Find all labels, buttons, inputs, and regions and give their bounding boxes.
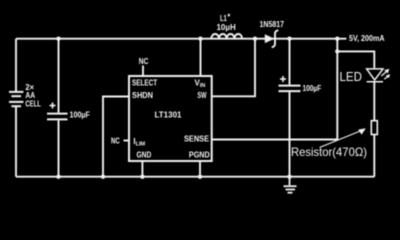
svg-text:*: *	[227, 13, 231, 22]
C2 plus sign	[280, 76, 286, 82]
ground symbol	[284, 177, 297, 193]
wire resistor to bottom rail	[373, 135, 375, 177]
node: bottom rail / ground junction	[287, 175, 291, 179]
svg-text:L1: L1	[220, 14, 227, 23]
svg-text:SENSE: SENSE	[184, 135, 210, 144]
wire LED to resistor	[373, 82, 375, 121]
wire VIN branch	[200, 39, 202, 76]
wire LED branch	[337, 51, 374, 68]
wire NC stub left	[124, 140, 130, 142]
resistor R1 box	[371, 121, 377, 135]
wire SHDN branch	[103, 97, 129, 177]
node: bottom rail / PGND junction	[198, 175, 202, 179]
svg-text:CELL: CELL	[25, 100, 41, 109]
node: bottom rail / SHDN junction	[101, 175, 105, 179]
node: top rail / C1 junction	[56, 37, 60, 41]
wire C1 branch lower	[58, 120, 60, 176]
svg-text:Resistor(470Ω): Resistor(470Ω)	[291, 145, 367, 159]
node: top rail / C2 junction	[287, 37, 291, 41]
svg-text:LT1301: LT1301	[155, 111, 183, 120]
inductor L1	[211, 34, 242, 39]
LED D2 symbol	[367, 69, 383, 82]
svg-text:1N5817: 1N5817	[260, 20, 285, 29]
svg-text:100µF: 100µF	[70, 111, 91, 120]
node: top rail / VIN junction	[198, 37, 202, 41]
C1 plus sign	[50, 103, 56, 109]
node: bottom rail / C1 junction	[56, 175, 60, 179]
wire left vertical (battery branch top)	[15, 39, 17, 92]
svg-text:PGND: PGND	[189, 151, 210, 160]
node: LED branch junction	[335, 49, 339, 53]
wire top rail	[16, 38, 346, 40]
wire bottom rail	[16, 176, 374, 178]
svg-text:GND: GND	[137, 151, 152, 160]
node: top rail / SW junction	[253, 37, 257, 41]
wire SENSE branch vertical	[212, 39, 338, 140]
svg-text:5V, 200mA: 5V, 200mA	[349, 34, 385, 43]
svg-text:100µF: 100µF	[303, 84, 322, 93]
battery BT1	[9, 92, 23, 106]
wire C2 branch lower	[289, 92, 291, 177]
svg-text:SW: SW	[197, 91, 206, 100]
svg-text:LED: LED	[340, 70, 363, 84]
svg-text:VIN: VIN	[195, 79, 206, 90]
node: top rail / output junction	[335, 37, 339, 41]
svg-text:ILIM: ILIM	[133, 137, 145, 148]
wire SW branch	[212, 39, 255, 97]
wire C1 branch upper	[58, 39, 60, 113]
svg-text:NC: NC	[139, 57, 149, 66]
wire NC stub top	[142, 66, 144, 77]
capacitor C1 100uF	[47, 114, 68, 120]
wire PGND pin stub	[199, 161, 201, 177]
D1 schottky cathode bar	[272, 30, 279, 47]
resistor annotation arrow	[320, 128, 366, 147]
svg-text:SHDN: SHDN	[132, 91, 153, 100]
node: bottom rail / GND junction	[140, 175, 144, 179]
svg-text:10µH: 10µH	[217, 23, 236, 32]
diode D1 1N5817 triangle	[265, 34, 275, 43]
IC U1 LT1301 box	[129, 76, 212, 161]
svg-text:NC: NC	[111, 136, 120, 145]
wire C2 branch upper	[289, 39, 291, 85]
capacitor C2 100uF	[279, 86, 301, 92]
wire left vertical (battery branch bottom)	[15, 106, 17, 177]
svg-text:SELECT: SELECT	[132, 79, 157, 88]
wire GND pin stub	[141, 161, 143, 177]
LED light arrows	[381, 69, 390, 80]
